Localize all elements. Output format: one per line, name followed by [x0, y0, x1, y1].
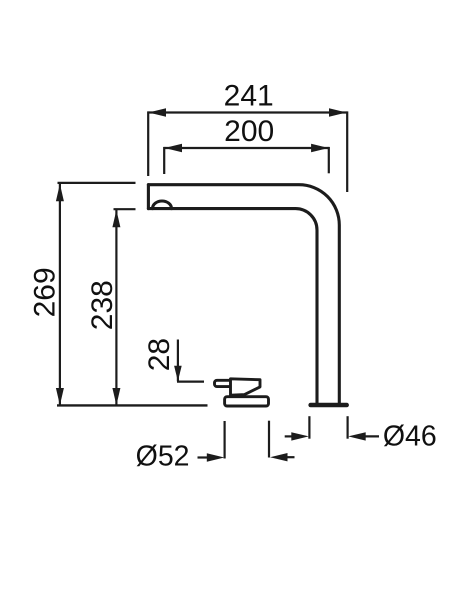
dimension 238: top arrowhead [112, 210, 120, 227]
dimension O46: left extension line [308, 416, 310, 439]
dimension O52: right leader with left arrowhead [284, 456, 295, 458]
dimension 269: dimension line [59, 184, 61, 405]
faucet spout end cap [147, 185, 150, 209]
dimension 241: right arrowhead [329, 108, 347, 116]
dimension 200: left extension line [163, 147, 165, 174]
faucet spout underside and riser inner profile [148, 209, 317, 403]
dimension 200: dimension line [165, 147, 329, 149]
svg-text:269: 269 [28, 267, 61, 317]
dimension 241: left arrowhead [149, 108, 167, 116]
svg-text:Ø46: Ø46 [383, 420, 437, 452]
base flange of riser [308, 403, 349, 408]
handle body [231, 379, 261, 395]
dimension 241: left extension line [147, 111, 149, 176]
dimension O46: right leader with left arrowhead [362, 435, 379, 437]
dimension 28: handle-top extension line [177, 381, 204, 383]
svg-text:241: 241 [224, 79, 274, 112]
dimension 200: right extension line [328, 147, 330, 173]
dimension 241: dimension line [149, 111, 347, 113]
counter baseline (dimension base) [57, 404, 208, 406]
handle lever arm [215, 380, 233, 386]
dimension O46: left leader with right arrowhead [285, 435, 294, 437]
dimension 28: leader line [177, 340, 179, 382]
svg-text:200: 200 [224, 115, 274, 148]
dimension O52: left extension line [224, 421, 226, 459]
faucet spout and riser outer profile [148, 185, 339, 403]
dimension 28: down arrowhead [174, 366, 182, 382]
dimension 200: right arrowhead [311, 144, 329, 152]
handle base plate [225, 397, 269, 406]
dimension 269: top extension line [58, 182, 136, 184]
dimension 200: left arrowhead [165, 144, 183, 152]
svg-text:238: 238 [86, 280, 119, 330]
dimension O46: right extension line [347, 416, 349, 439]
dimension 269: top arrowhead [56, 184, 64, 201]
dimension 241: right extension line [346, 111, 348, 192]
dimension 238: top extension line [114, 208, 136, 210]
dimension 269: bottom arrowhead [56, 388, 64, 405]
svg-text:Ø52: Ø52 [136, 440, 190, 472]
dimension 238: bottom arrowhead [112, 388, 120, 405]
svg-text:28: 28 [143, 338, 176, 371]
aerator bump at spout tip [153, 201, 172, 209]
dimension O52: left leader with right arrowhead [198, 456, 211, 458]
dimension O52: right extension line [268, 421, 270, 458]
dimension 238: dimension line [115, 210, 117, 405]
